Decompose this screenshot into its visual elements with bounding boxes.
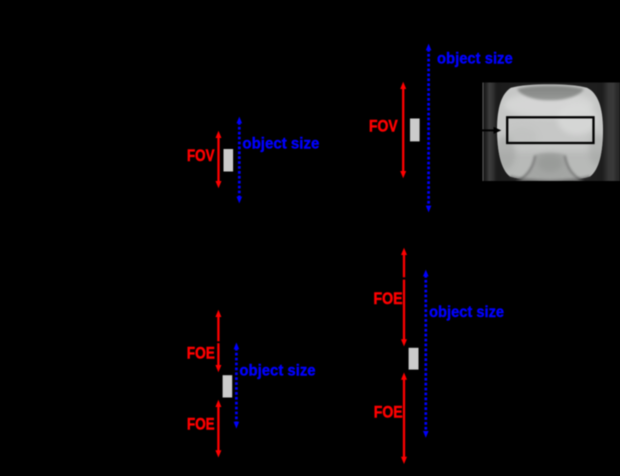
svg-text:FOE: FOE [187, 344, 215, 362]
object slab (top-right, gray rect) [410, 119, 420, 142]
pointer arrow to ROI [460, 127, 501, 134]
object slab (bottom-right, gray rect) [409, 348, 419, 370]
object slab (top-left, gray rect) [224, 149, 234, 172]
FOE upper double arrow (bottom-left, red) [215, 310, 221, 372]
ROI rectangle on MRI [507, 117, 593, 143]
left thin frame line [483, 83, 484, 182]
FOV double arrow (top-left, red) [216, 131, 222, 188]
blob bright patch upper-right inside ROI [557, 103, 597, 135]
blob bottom rim [510, 177, 590, 181]
blob top bright sheen [504, 92, 594, 118]
intercondylar top notch (shallow crescent) [517, 86, 584, 101]
svg-text:object size: object size [239, 363, 316, 380]
object size double arrow (top-left, blue dotted) [237, 117, 243, 204]
svg-text:object size: object size [437, 51, 513, 68]
svg-text:FOV: FOV [369, 118, 398, 136]
svg-text:FOV: FOV [187, 147, 215, 165]
FOV double arrow (top-right, red) [400, 82, 406, 178]
mri background columns [483, 83, 620, 182]
svg-text:FOE: FOE [374, 290, 403, 308]
svg-text:object size: object size [242, 135, 319, 152]
object size double arrow (top-right, blue dotted) [426, 44, 432, 213]
svg-text:object size: object size [429, 304, 504, 321]
svg-text:FOE: FOE [187, 415, 215, 433]
hidden fold line gap over upper FOE arrow [402, 277, 407, 279]
blob slight dim in ROI lower-left [507, 128, 537, 146]
object size double arrow (bottom-left, blue dotted) [234, 343, 240, 429]
trochlear groove stem (bottom) [517, 153, 583, 181]
blob dim lower-right edge [589, 134, 607, 166]
MRI inset image (axial knee) [483, 79, 620, 184]
mri bright trochlea blob [495, 79, 607, 184]
hidden fold line gap over upper FOE arrow [216, 341, 221, 343]
stem flare crease right [565, 156, 584, 182]
stem flare crease left [517, 156, 536, 182]
stem darker core [537, 154, 563, 172]
object slab (bottom-left, gray rect) [223, 375, 233, 397]
svg-text:FOE: FOE [374, 404, 403, 422]
blob dim lower-left edge [495, 136, 515, 170]
object size double arrow (bottom-right, blue dotted) [423, 270, 429, 438]
blob dim lower band [495, 152, 607, 184]
FOE lower double arrow (bottom-right, red) [401, 373, 407, 465]
FOE lower double arrow (bottom-left, red) [215, 400, 221, 458]
FOE upper double arrow (bottom-right, red) [401, 248, 407, 347]
